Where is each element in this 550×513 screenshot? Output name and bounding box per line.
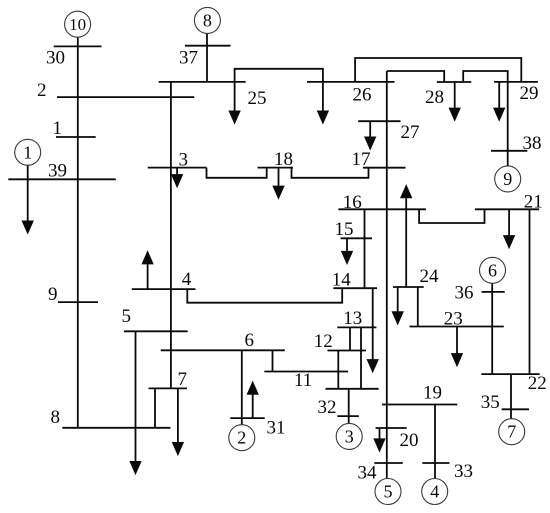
bus 19 — [382, 404, 457, 406]
bus 3 — [148, 167, 207, 169]
svg-text:4: 4 — [182, 269, 192, 290]
bus 17 — [363, 167, 406, 169]
bus 30 — [54, 45, 102, 47]
line 5-8 with load arrow bus 8 — [131, 331, 141, 473]
svg-text:3: 3 — [179, 149, 189, 170]
svg-text:30: 30 — [46, 48, 65, 69]
injection arrow bus 31 — [248, 383, 258, 418]
wire line 29-38 to gen9 — [507, 82, 509, 166]
bus 33 — [422, 462, 449, 464]
svg-text:4: 4 — [430, 482, 439, 502]
wire gen6-36-23-22 — [491, 283, 493, 374]
wire line 25-26 — [235, 69, 323, 82]
svg-text:19: 19 — [423, 382, 442, 403]
svg-text:37: 37 — [179, 48, 198, 69]
load arrow bus 26 — [318, 82, 328, 123]
svg-text:7: 7 — [178, 369, 188, 390]
load arrow bus 3 — [172, 168, 182, 186]
svg-text:6: 6 — [245, 330, 255, 351]
bus 12 — [328, 350, 367, 352]
bus 14 — [333, 287, 377, 289]
svg-text:16: 16 — [343, 192, 362, 213]
bus 36 — [482, 291, 505, 293]
bus 25 — [159, 81, 246, 83]
svg-text:28: 28 — [425, 87, 444, 108]
bus 24 — [393, 286, 424, 288]
svg-text:34: 34 — [358, 463, 378, 484]
wire line 13-12 — [349, 327, 351, 350]
generator G10 — [65, 11, 91, 37]
bus 18 — [258, 167, 294, 169]
injection arrow bus 24 (line 16-24) — [401, 186, 411, 287]
bus 22 — [481, 373, 539, 375]
generator G1 — [15, 139, 41, 165]
generator G5 — [375, 479, 401, 505]
load arrow bus 20 — [375, 428, 385, 450]
svg-text:31: 31 — [267, 418, 286, 439]
svg-text:12: 12 — [314, 331, 333, 352]
wire line 18-17 — [292, 168, 369, 178]
wire bus25-2-3-4-5-6-7 trunk — [170, 82, 172, 389]
wire line 3-18 — [207, 168, 267, 178]
svg-text:20: 20 — [400, 430, 419, 451]
wire line 4-14 — [187, 288, 342, 303]
bus 8 — [62, 427, 170, 429]
svg-text:7: 7 — [507, 422, 516, 442]
bus 10 — [326, 388, 379, 390]
svg-text:2: 2 — [37, 80, 47, 101]
svg-text:8: 8 — [203, 10, 212, 30]
bus 34 — [374, 462, 403, 464]
generator G7 — [499, 419, 525, 445]
svg-text:18: 18 — [274, 149, 293, 170]
svg-text:11: 11 — [294, 370, 312, 391]
wire line 16-15-14 — [364, 209, 366, 288]
svg-text:32: 32 — [318, 397, 337, 418]
bus 9 — [58, 301, 98, 303]
load arrow bus 21 — [504, 209, 514, 247]
injection arrow bus 4 — [143, 253, 153, 290]
wire line 19-33 to gen4 — [434, 405, 436, 479]
line 14-13 with load arrow — [368, 288, 378, 371]
bus 37 — [185, 45, 231, 47]
bus 23 — [410, 326, 504, 328]
wire line 28-29 — [463, 71, 508, 82]
bus 28 — [437, 81, 471, 83]
wire main trunk 26-27-17-16-19-20-34 to gen5 — [386, 71, 388, 479]
svg-text:9: 9 — [48, 284, 58, 305]
svg-text:1: 1 — [53, 118, 63, 139]
wire line 24-23 — [417, 287, 419, 327]
svg-text:14: 14 — [332, 269, 352, 290]
svg-text:27: 27 — [401, 122, 420, 143]
wire gen10 to bus 8 (left trunk) — [77, 37, 79, 428]
bus 13 — [337, 326, 376, 328]
svg-text:5: 5 — [122, 306, 132, 327]
wire line 6-11 — [272, 350, 274, 371]
generator G3 — [336, 423, 362, 449]
wire line 22-35 to gen7 — [510, 374, 512, 419]
bus 4 — [132, 288, 196, 290]
svg-text:39: 39 — [48, 161, 67, 182]
generator G9 — [495, 166, 521, 192]
wire gen1 to bus 39 — [27, 165, 29, 180]
load arrow bus 18 — [274, 168, 284, 198]
generator G8 — [194, 7, 220, 33]
bus 6 — [161, 349, 285, 351]
bus 5 — [124, 330, 188, 332]
svg-text:13: 13 — [343, 308, 362, 329]
load arrow bus 25 — [230, 82, 240, 123]
svg-text:15: 15 — [335, 219, 354, 240]
wire gen8 to bus 25 — [206, 33, 208, 82]
load arrow bus 24 — [393, 287, 403, 323]
generator G4 — [422, 479, 448, 505]
svg-text:17: 17 — [352, 149, 371, 170]
generator G6 — [480, 257, 506, 283]
wire line 7-8 — [154, 388, 156, 427]
bus 21 — [475, 208, 539, 210]
wire line 26-29 — [355, 58, 521, 82]
bus 27 — [358, 120, 400, 122]
load arrow bus 7 — [173, 388, 183, 454]
bus 29 — [494, 81, 538, 83]
svg-text:22: 22 — [528, 373, 547, 394]
wire line 16-21 — [419, 209, 484, 223]
svg-text:36: 36 — [455, 283, 474, 304]
svg-text:21: 21 — [524, 192, 543, 213]
wire line 10-32 to gen3 — [348, 389, 350, 424]
load arrow bus 23 — [452, 327, 462, 366]
svg-text:24: 24 — [420, 266, 440, 287]
svg-text:29: 29 — [520, 83, 539, 104]
svg-text:1: 1 — [23, 142, 32, 162]
bus 26 — [307, 81, 395, 83]
bus 31 — [230, 417, 264, 419]
bus 7 — [149, 387, 187, 389]
bus 1 — [56, 136, 96, 138]
bus 15 — [341, 237, 373, 239]
svg-text:25: 25 — [248, 88, 267, 109]
svg-text:10: 10 — [69, 15, 86, 34]
bus 35 — [502, 408, 529, 410]
svg-text:3: 3 — [345, 426, 354, 446]
svg-text:23: 23 — [444, 309, 463, 330]
load arrow bus 39 — [23, 179, 33, 232]
load arrow bus 15 — [342, 238, 352, 262]
bus 38 — [491, 150, 527, 152]
svg-text:33: 33 — [454, 461, 473, 482]
load arrow bus 27 — [365, 121, 375, 148]
wire line 21-22 — [529, 209, 531, 374]
wire line 12-11-10 — [337, 351, 339, 389]
bus 2 — [57, 96, 194, 98]
svg-text:38: 38 — [523, 133, 542, 154]
svg-text:26: 26 — [353, 85, 372, 106]
generator G2 — [229, 425, 255, 451]
bus 20 — [376, 427, 407, 429]
wire line 6-31 to gen2 — [241, 350, 243, 425]
bus 11 — [264, 371, 348, 373]
svg-text:8: 8 — [51, 407, 61, 428]
svg-text:2: 2 — [237, 428, 246, 448]
wire line 13-10 — [360, 327, 362, 388]
svg-text:5: 5 — [384, 482, 393, 502]
bus 32 — [337, 415, 359, 417]
wire line 27-28 — [387, 71, 444, 82]
bus 16 — [338, 208, 426, 210]
load arrow bus 28 — [450, 82, 460, 120]
svg-text:9: 9 — [503, 169, 512, 189]
svg-text:35: 35 — [481, 392, 500, 413]
svg-text:6: 6 — [488, 260, 497, 280]
load arrow bus 29 — [494, 82, 504, 120]
bus 39 — [8, 178, 116, 180]
